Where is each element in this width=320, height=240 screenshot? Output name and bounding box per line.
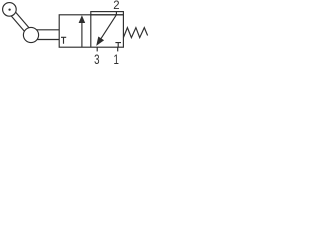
lever mount bracket upper line: [34, 29, 59, 31]
valve body outline: [59, 15, 123, 47]
right box flow path diagonal: [101, 15, 116, 39]
port-2 header rectangle above right box: [91, 12, 124, 15]
left box flow arrow shaft: [81, 22, 83, 48]
lever arm (two parallel rods): [12, 8, 34, 33]
right box flow arrow head: [96, 37, 104, 46]
port 1 stub: [117, 47, 119, 51]
right box blocked port T: [115, 43, 121, 48]
svg-text:1: 1: [113, 51, 119, 67]
svg-text:2: 2: [113, 0, 119, 12]
roller axle dot: [8, 8, 10, 10]
svg-text:3: 3: [94, 51, 100, 67]
port 2 stub: [115, 12, 117, 15]
port 3 stub: [96, 47, 98, 51]
lever mount bracket lower line: [34, 39, 59, 41]
left box blocked port T: [61, 37, 66, 43]
lever pivot circle: [23, 27, 38, 42]
return spring: [123, 28, 147, 38]
roller wheel circle: [3, 3, 17, 17]
left box flow arrow head: [79, 15, 86, 23]
position divider: [90, 15, 92, 47]
